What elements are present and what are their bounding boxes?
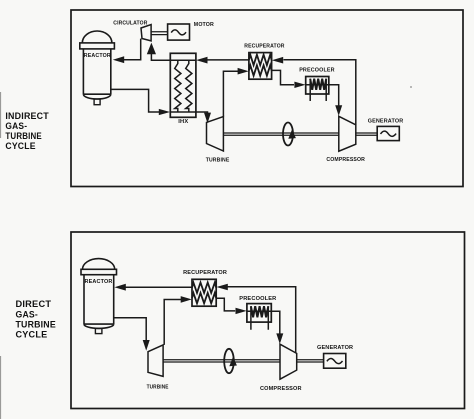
svg-text:COMPRESSOR: COMPRESSOR [260, 386, 302, 392]
svg-text:GAS-: GAS- [5, 121, 27, 131]
precooler (bottom) water pipes [251, 306, 268, 330]
compressor C-bottom [280, 344, 297, 379]
svg-text:CYCLE: CYCLE [16, 329, 48, 339]
svg-text:TURBINE: TURBINE [206, 158, 230, 164]
wire: circulator outlet to reactor inlet [124, 39, 141, 60]
wire: precooler outlet down to compressor (bottom) [271, 311, 280, 334]
recuperator (top) zigzag row 2 [249, 65, 272, 75]
arrow into precooler left [294, 82, 305, 88]
wire: turbine exhaust up to recuperator (bottom) [164, 300, 181, 345]
wire: recuperator upper outlet to reactor [126, 286, 193, 288]
svg-text:CIRCULATOR: CIRCULATOR [113, 21, 147, 27]
shaft rotation ellipse (top) [283, 123, 293, 146]
svg-text:COMPRESSOR: COMPRESSOR [326, 157, 365, 163]
arrow down into compressor (bottom) [276, 333, 283, 344]
IHX spring coil 1 [175, 61, 181, 113]
scan artifact left edge upper [0, 92, 1, 138]
svg-text:GENERATOR: GENERATOR [368, 118, 404, 124]
reactor R-bottom vessel [81, 259, 117, 334]
recuperator (top) box [249, 53, 272, 80]
arrow into reactor (bottom) [114, 284, 125, 291]
svg-text:DIRECT: DIRECT [16, 299, 52, 309]
wire: turbine exhaust up to recuperator [223, 71, 238, 116]
svg-text:REACTOR: REACTOR [85, 279, 113, 285]
svg-text:MOTOR: MOTOR [194, 22, 214, 28]
wire: IHX top line to circulator riser [151, 54, 196, 60]
svg-text:TURBINE: TURBINE [147, 385, 169, 391]
wire: recuperator lower outlet to precooler [272, 70, 294, 84]
turbine T-top [207, 117, 224, 152]
shaft rotation ellipse (bottom) [224, 349, 234, 373]
shaft: turbine to compressor (top) [223, 133, 338, 135]
arrow into recuperator top-right (bottom) [216, 284, 227, 291]
wire: compressor outlet up and into recuperator right (bottom) [228, 287, 296, 354]
circulator fan symbol [141, 25, 151, 41]
IHX spring coil 2 [186, 61, 192, 113]
shaft: compressor to generator (top) [356, 133, 377, 135]
shaft: circulator to motor [151, 32, 168, 35]
arrow down into compressor [335, 105, 342, 116]
svg-text:REACTOR: REACTOR [84, 53, 111, 59]
arrow into precooler left (bottom) [236, 308, 247, 314]
svg-text:RECUPERATOR: RECUPERATOR [183, 270, 227, 276]
svg-text:PRECOOLER: PRECOOLER [239, 296, 276, 302]
generator G1 box with sine [377, 126, 399, 140]
precooler (top) coil zigzag [310, 79, 326, 90]
arrow down into turbine (bottom) [143, 340, 150, 351]
arrow into recuperator lower-left (bottom) [181, 296, 192, 303]
svg-text:PRECOOLER: PRECOOLER [299, 68, 335, 74]
IHX box [170, 53, 196, 117]
generator G2 box with sine [324, 354, 346, 369]
frame: top diagram outer box [71, 10, 463, 187]
shaft rotation arrow (bottom) [229, 357, 237, 367]
recuperator (bottom) zigzag row 1 [192, 283, 216, 293]
wire: compressor outlet up and into recuperator right [283, 60, 355, 125]
precooler (top) water pipes [310, 79, 326, 101]
shaft: compressor to generator (bottom) [297, 360, 324, 362]
wire: precooler outlet down to compressor [329, 85, 339, 106]
wire: recuperator lower outlet to precooler (bottom) [216, 298, 235, 311]
shaft: turbine to compressor (bottom) [163, 360, 280, 362]
svg-text:TURBINE: TURBINE [5, 131, 42, 141]
arrow down into turbine [204, 113, 211, 124]
arrow into IHX bottom-left [159, 109, 170, 115]
svg-text:RECUPERATOR: RECUPERATOR [244, 44, 284, 50]
svg-text:IHX: IHX [178, 119, 188, 125]
wire: IHX hot outlet down to turbine [196, 112, 208, 113]
frame: bottom diagram outer box [71, 232, 465, 409]
arrow into reactor [113, 56, 124, 63]
svg-text:GENERATOR: GENERATOR [317, 345, 353, 351]
recuperator (bottom) box [192, 279, 216, 306]
svg-text:GAS-: GAS- [16, 309, 39, 319]
svg-text:INDIRECT: INDIRECT [5, 111, 49, 121]
arrow into recuperator top-right [272, 57, 283, 64]
arrow into recuperator lower-left [238, 68, 249, 75]
shaft rotation arrow (top) [288, 129, 296, 139]
precooler (bottom) internal flow line [247, 310, 271, 312]
scan artifact dot [410, 86, 412, 88]
compressor C-top [339, 116, 356, 151]
turbine T-bottom [148, 345, 163, 377]
precooler (bottom) coil zigzag [251, 306, 268, 317]
arrow up into circulator [147, 43, 156, 55]
recuperator (top) zigzag row 1 [249, 55, 272, 65]
precooler (top) box [306, 77, 329, 95]
recuperator (bottom) zigzag row 2 [192, 293, 216, 303]
arrow into IHX top-right [196, 57, 207, 64]
label: DIRECT GAS-TURBINE CYCLE [16, 299, 56, 339]
motor M1 box with sine [168, 24, 190, 40]
precooler (top) internal flow line [306, 84, 329, 86]
IHX bottom internal line [170, 111, 196, 113]
precooler (bottom) box [247, 304, 271, 323]
svg-text:TURBINE: TURBINE [16, 319, 56, 329]
reactor R-top vessel [80, 31, 115, 105]
svg-text:CYCLE: CYCLE [5, 141, 35, 151]
wire: reactor outlet to IHX bottom inlet [111, 89, 159, 112]
label: INDIRECT GAS-TURBINE CYCLE [5, 111, 49, 151]
wire: recuperator upper outlet to IHX [207, 59, 249, 61]
scan artifact left edge lower [0, 356, 1, 419]
wire: reactor outlet down to turbine [114, 318, 147, 341]
